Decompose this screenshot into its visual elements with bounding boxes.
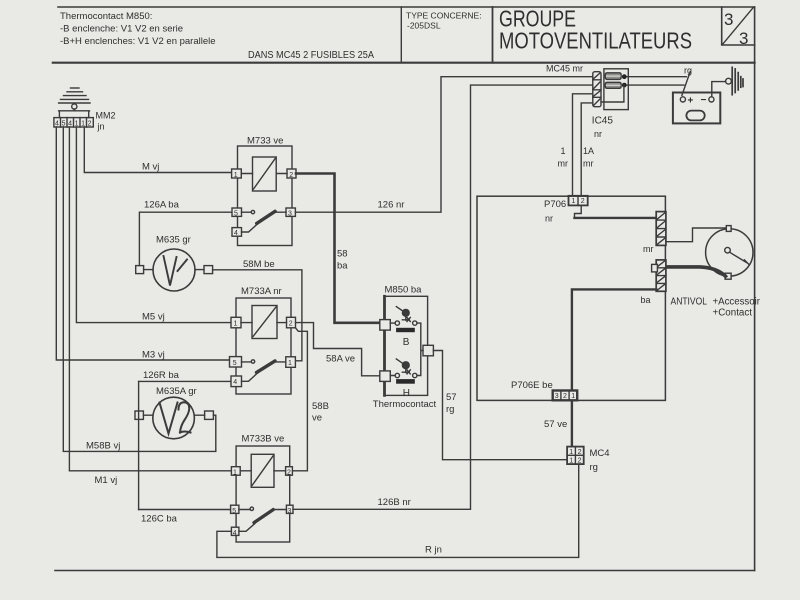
svg-text:DANS MC45 2 FUSIBLES 25A: DANS MC45 2 FUSIBLES 25A [248, 50, 374, 61]
svg-text:58M be: 58M be [243, 259, 275, 270]
svg-text:MC4: MC4 [590, 448, 610, 459]
fuse F2 [605, 82, 621, 88]
svg-text:-B+H enclenches: V1 V2 en para: -B+H enclenches: V1 V2 en parallele [60, 36, 216, 47]
svg-text:M850 ba: M850 ba [385, 285, 423, 296]
svg-text:−: − [701, 95, 707, 106]
relay M733B terminal 4 [231, 527, 239, 535]
svg-text:1: 1 [569, 458, 573, 465]
svg-text:+Accessoir: +Accessoir [713, 297, 761, 308]
thermocontact M850 left edge thick [383, 296, 386, 395]
connector MC4 [567, 447, 584, 465]
svg-text:58: 58 [337, 249, 348, 260]
svg-text:1A: 1A [583, 146, 594, 156]
svg-text:1: 1 [234, 172, 238, 179]
connector mr strip [656, 212, 666, 246]
battery polarity labels [688, 95, 707, 107]
svg-text:jn: jn [97, 122, 105, 132]
label 58 ba [337, 249, 348, 272]
svg-text:mr: mr [558, 159, 569, 169]
relay M733 terminal 5 [232, 208, 242, 216]
label GROUPE MOTOVENTILATEURS [499, 6, 692, 54]
node fuse F1 output dot [622, 74, 627, 79]
frame right border [754, 7, 756, 571]
connector ba small side box [652, 264, 658, 272]
fusebox MC45 outer box [604, 69, 628, 110]
connector MM2 bar and legs [59, 109, 90, 118]
ground right hatch [732, 67, 743, 94]
label 1A mr [583, 146, 594, 169]
relay M733 terminal coil-left [232, 169, 242, 178]
motor M635A body [153, 397, 195, 439]
battery minus terminal [709, 97, 714, 102]
svg-text:3: 3 [288, 210, 292, 217]
wire 57 ve (ba strip to MC4) [572, 289, 656, 447]
switch ANTIVOL bottom terminal [725, 273, 731, 279]
svg-text:1: 1 [233, 469, 237, 476]
wire 126R ba horizontal [139, 380, 231, 382]
battery BB00 box [673, 93, 720, 124]
relay M733A internal wires [241, 323, 287, 382]
svg-text:M3 vj: M3 vj [142, 350, 165, 361]
svg-text:1: 1 [571, 393, 575, 400]
relay M733 box [238, 146, 293, 246]
svg-text:2: 2 [581, 198, 585, 205]
relay M733 terminal 2 coil-right [287, 169, 296, 178]
wire rg slant to battery plus [682, 72, 690, 96]
svg-text:5: 5 [234, 210, 238, 217]
svg-text:mr: mr [643, 244, 654, 254]
relay M733B contact pivot circle [250, 507, 253, 510]
svg-text:P706E be: P706E be [511, 380, 553, 391]
relay M733 internal wires [241, 174, 287, 233]
relay M733A coil [252, 306, 277, 339]
relay M733B terminal 2 coil-right [286, 467, 293, 476]
relay M733 pin digits [234, 172, 293, 237]
svg-text:1: 1 [572, 198, 576, 205]
relay M733A terminal 1 sw-right [286, 357, 296, 368]
frame bottom border [55, 570, 755, 572]
svg-text:5: 5 [233, 360, 237, 367]
wire 1 mr (MC45 to P706 pin1) [573, 94, 593, 197]
svg-text:nr: nr [545, 214, 553, 224]
title box TYPE left edge [400, 7, 402, 63]
svg-text:+: + [688, 96, 694, 107]
ground right circle [726, 78, 732, 84]
svg-text:B: B [403, 337, 410, 348]
thermocontact M850 internal wiring [390, 323, 423, 375]
svg-text:1: 1 [234, 320, 238, 327]
frame top border [58, 6, 755, 8]
svg-text:4: 4 [233, 379, 237, 386]
relay M733A terminal coil-left [231, 317, 241, 328]
label page 3/3 [724, 10, 748, 48]
relay M733A coil diagonal [253, 307, 276, 337]
svg-text:P706: P706 [544, 199, 566, 210]
relay M733 terminal 3 sw-right [286, 208, 295, 216]
title box divider [492, 7, 494, 63]
wire R jn (M733B t4 to MC4) [217, 463, 579, 558]
svg-text:126 nr: 126 nr [378, 200, 405, 211]
connector P706E pin digits [555, 393, 575, 400]
wire mr to antivol top terminal [666, 228, 726, 242]
svg-text:mr: mr [583, 159, 594, 169]
switch ANTIVOL circle [706, 229, 753, 276]
thermocontact M850 terminal B-in [380, 320, 391, 331]
relay M733A terminal 2 coil-right [287, 317, 296, 328]
wire 126A ba (M635 to M733 term5) [139, 212, 232, 265]
thermocontact M850 terminal out [423, 345, 433, 356]
wire 58 ba (M733 t2 to M850 B) [296, 174, 380, 323]
relay M733 coil [253, 157, 277, 191]
svg-text:IC45: IC45 [592, 116, 614, 127]
wire 126C ba horizontal [139, 509, 231, 511]
svg-text:ba: ba [641, 295, 651, 305]
motor M635 body [153, 249, 195, 291]
switch ANTIVOL top terminal [726, 226, 731, 232]
switch ANTIVOL thick contact arm [666, 267, 726, 276]
wire battery minus to ground [712, 82, 726, 97]
motor M635 V symbol [164, 256, 188, 286]
wire M5 vj (MM2 to M733A coil) [76, 127, 231, 323]
thermocontact M850 H contact circles [395, 373, 399, 377]
relay M733A contact arm [257, 361, 276, 373]
svg-text:+Contact: +Contact [713, 308, 753, 319]
svg-text:2: 2 [578, 449, 582, 456]
svg-text:rg: rg [590, 462, 598, 473]
wire 126B nr (M733B t3 to MC45) [293, 85, 593, 509]
thermocontact M850 terminal H-in [380, 371, 391, 382]
wire 58B ve (M733A t2 jog to M733B t2) [292, 328, 307, 471]
relay M733 contact pivot circle [251, 210, 254, 213]
svg-text:58B: 58B [312, 401, 329, 412]
relay M733A contact pivot circle [251, 360, 254, 363]
svg-text:-B enclenche: V1 V2 en serie: -B enclenche: V1 V2 en serie [60, 24, 183, 35]
svg-text:rg: rg [684, 66, 692, 76]
svg-text:1: 1 [569, 449, 573, 456]
wire 58A ve (M733A t2 to M850 H) [296, 323, 380, 376]
motor M635 right terminal [204, 266, 213, 274]
relay M733 coil diagonal [254, 159, 276, 190]
page number diagonal [723, 7, 754, 44]
svg-text:M733A nr: M733A nr [241, 286, 282, 297]
wire 1A mr below P706 [575, 205, 582, 218]
svg-text:M733 ve: M733 ve [247, 136, 283, 147]
svg-text:2: 2 [88, 120, 92, 127]
motor M635 left terminal [136, 266, 144, 274]
label 57 rg [446, 392, 457, 415]
svg-text:1: 1 [561, 146, 566, 156]
relay M733B coil [251, 454, 274, 487]
svg-text:2: 2 [578, 458, 582, 465]
svg-text:126B nr: 126B nr [378, 497, 411, 508]
svg-text:MOTOVENTILATEURS: MOTOVENTILATEURS [499, 28, 692, 54]
wire M58B vj (MM2 to M635A right terminal) [63, 127, 216, 451]
connector MC4 pin digits [569, 449, 581, 465]
connector MM2 strip [54, 118, 93, 127]
switch ANTIVOL wiper line [730, 252, 747, 262]
wire 126 nr (M733 t3 to MC45) [295, 77, 592, 213]
label 1 mr [558, 146, 569, 169]
frame title bottom line [53, 62, 755, 64]
wire 58M be (M635 to M733A term1) [213, 270, 302, 361]
relay M733B internal wires [239, 471, 287, 532]
wire M635 terminal stubs [144, 269, 204, 271]
svg-text:3: 3 [724, 10, 733, 29]
wire M3 vj (MM2 to M733A term5) [56, 127, 229, 360]
svg-text:3: 3 [739, 29, 748, 48]
relay M733B coil diagonal [252, 456, 273, 485]
relay M733 terminal 4 [232, 228, 242, 237]
wire fuse F1 to battery [627, 76, 687, 78]
wire 1A mr (MC45 to P706 pin2) [581, 103, 593, 197]
svg-text:MM2: MM2 [96, 111, 116, 121]
svg-text:ANTIVOL: ANTIVOL [671, 297, 708, 308]
svg-text:4: 4 [234, 230, 238, 237]
connector P706 [569, 196, 588, 206]
label TYPE CONCERNE [406, 11, 482, 31]
svg-text:3: 3 [288, 508, 292, 515]
switch ANTIVOL edge tick [744, 260, 749, 265]
motor M635A V2 symbol [160, 402, 191, 433]
svg-text:H: H [403, 388, 410, 399]
svg-text:58A ve: 58A ve [326, 354, 355, 365]
battery cell oval [686, 111, 704, 121]
thermocontact M850 box [385, 296, 428, 395]
relay M733A pin digits [233, 320, 293, 386]
relay M733B terminal 3 sw-right [286, 505, 293, 513]
svg-text:3: 3 [555, 393, 559, 400]
svg-text:ve: ve [312, 413, 322, 424]
wire fuse F2 loopback to strip [601, 85, 624, 102]
svg-text:2: 2 [563, 393, 567, 400]
page number box [722, 7, 755, 45]
svg-text:M5 vj: M5 vj [142, 312, 165, 323]
connector P706 pin digits [572, 198, 585, 205]
relay M733 contact arm [257, 211, 275, 223]
label 58B ve [312, 401, 329, 424]
svg-text:-205DSL: -205DSL [407, 21, 441, 31]
svg-text:R jn: R jn [425, 545, 442, 556]
relay M733B terminal coil-left [231, 467, 240, 476]
svg-text:M733B ve: M733B ve [242, 434, 285, 445]
box antivol region [477, 196, 665, 400]
svg-text:1: 1 [288, 360, 292, 367]
thermocontact M850 B actuator [402, 309, 409, 316]
thermocontact M850 H bimetal bar [396, 379, 415, 384]
svg-text:ba: ba [337, 261, 348, 272]
wire feed P706 to mr connector [575, 217, 657, 219]
battery plus terminal [680, 97, 685, 102]
ground MM2 hatch stack [59, 88, 90, 103]
svg-text:M58B vj: M58B vj [86, 441, 120, 452]
svg-text:M635A gr: M635A gr [156, 386, 197, 397]
svg-text:126R ba: 126R ba [143, 370, 180, 381]
thermocontact M850 B bimetal bar [396, 328, 415, 332]
thermocontact M850 B contact circles [395, 321, 399, 325]
svg-text:2: 2 [287, 469, 291, 476]
relay M733B pin digits [232, 469, 291, 537]
svg-text:M635 gr: M635 gr [156, 235, 191, 246]
svg-text:Thermocontact: Thermocontact [373, 399, 437, 410]
svg-text:TYPE CONCERNE:: TYPE CONCERNE: [406, 11, 482, 21]
svg-text:2: 2 [289, 172, 293, 179]
svg-text:57: 57 [446, 392, 457, 403]
connector MM2 pin numbers [55, 120, 92, 127]
svg-text:Thermocontact M850:: Thermocontact M850: [60, 11, 152, 22]
wire 126R ba / 126C ba riser [138, 381, 140, 509]
svg-text:4: 4 [233, 530, 237, 537]
svg-text:5: 5 [232, 508, 236, 515]
relay M733B box [236, 446, 290, 542]
relay M733B terminal 5 [231, 505, 239, 513]
svg-text:nr: nr [594, 129, 602, 139]
relay M733A box [236, 298, 291, 394]
wire 57 rg (M850 out to MC4) [433, 351, 567, 460]
fuse F1 [605, 73, 621, 80]
motor M635A right terminal [205, 411, 214, 419]
fusebox MC45 strip [593, 72, 601, 107]
wire M635A terminal stubs [143, 414, 204, 416]
node fuse F2 output dot [622, 83, 627, 88]
svg-text:57 ve: 57 ve [544, 419, 567, 430]
relay M733B contact arm [254, 510, 273, 523]
relay M733A terminal 5 [230, 357, 242, 367]
svg-text:rg: rg [446, 404, 454, 415]
connector ba strip [656, 260, 666, 291]
svg-text:MC45 mr: MC45 mr [546, 64, 583, 74]
ground MM2 stem circle [72, 104, 77, 109]
thermocontact M850 H actuator [402, 362, 409, 369]
svg-text:M vj: M vj [142, 162, 159, 173]
connector P706E [553, 391, 578, 401]
wire fuse F2 to battery [627, 84, 684, 86]
svg-text:2: 2 [289, 320, 293, 327]
label Thermocontact M850 note [60, 11, 216, 47]
switch ANTIVOL center pivot [725, 247, 731, 253]
relay M733A terminal 4 [231, 376, 242, 387]
wire M vj (MM2 to M733 coil) [84, 127, 231, 173]
svg-text:126A ba: 126A ba [144, 200, 180, 211]
wire M1 vj (MM2 to M733B coil) [69, 127, 231, 471]
motor M635A left terminal [135, 411, 143, 419]
svg-text:126C ba: 126C ba [141, 514, 178, 525]
svg-text:M1 vj: M1 vj [95, 475, 118, 486]
